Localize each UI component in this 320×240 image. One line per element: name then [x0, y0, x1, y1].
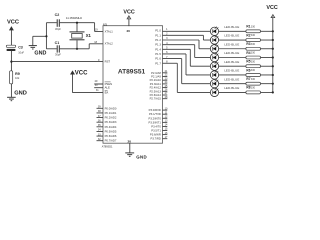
pin label RST: [105, 60, 111, 64]
resistor R3 330: [246, 42, 261, 50]
ground (U1 pin 20): [125, 153, 147, 160]
pin number 1: [166, 28, 168, 31]
resistor R6 330: [246, 68, 261, 76]
svg-text:15: 15: [165, 128, 168, 131]
wire P1.3 to LED D4: [163, 45, 211, 58]
svg-text:P0.2/AD2: P0.2/AD2: [105, 116, 117, 120]
resistor R8 330: [246, 86, 261, 94]
pin P0.6/AD6 stub (pin 33): [97, 133, 117, 138]
svg-text:VCC: VCC: [7, 19, 19, 25]
node VCC rail row 1: [272, 30, 274, 32]
svg-text:30: 30: [95, 84, 98, 87]
pin P0.3/AD3 stub (pin 36): [97, 119, 117, 124]
wire VCC to U1 pin 40: [128, 19, 130, 26]
capacitor C2 30pF: [55, 13, 62, 31]
LED D3 LED-BLUE: [210, 42, 239, 53]
pin number 8: [166, 60, 168, 63]
svg-text:40: 40: [126, 29, 130, 33]
svg-text:P1.6: P1.6: [155, 57, 161, 61]
pin label XTAL1: [105, 29, 114, 33]
svg-text:P2.2/A10: P2.2/A10: [150, 78, 162, 82]
svg-text:VCC: VCC: [266, 5, 277, 11]
wire P1.0 to LED D1: [163, 30, 211, 32]
pin P2.6/A14 stub (pin 27): [150, 92, 168, 97]
wire crystal top lead: [76, 23, 78, 32]
wire P1.6 to LED D7: [163, 59, 211, 84]
svg-text:LED-BLUE: LED-BLUE: [224, 51, 239, 55]
svg-text:C1: C1: [55, 41, 60, 45]
svg-text:GND: GND: [34, 51, 46, 57]
svg-text:LED-BLUE: LED-BLUE: [224, 69, 239, 73]
svg-text:330: 330: [251, 34, 256, 37]
svg-text:31: 31: [96, 89, 99, 92]
wire C2 to XTAL1: [60, 23, 103, 32]
node VCC rail row 6: [272, 74, 274, 76]
svg-text:P1.0: P1.0: [155, 29, 161, 33]
wire C1 left lead: [46, 48, 56, 50]
pin number 31 (EA): [96, 89, 99, 92]
pin number 6: [166, 51, 168, 54]
svg-text:P3.0/RXD: P3.0/RXD: [149, 108, 161, 112]
svg-text:14: 14: [165, 124, 168, 127]
pin label P1.1: [155, 33, 161, 37]
pin label P1.5: [155, 52, 161, 56]
pin P3.0/RXD stub (pin 10): [149, 107, 168, 112]
wire P1.7 to LED D8: [163, 63, 211, 92]
svg-text:P3.5/T1: P3.5/T1: [151, 129, 161, 133]
svg-text:P0.1/AD1: P0.1/AD1: [105, 111, 117, 115]
pin number 9 (RST): [98, 59, 100, 62]
svg-text:P3.4/T0: P3.4/T0: [151, 124, 161, 128]
svg-text:P2.0/A8: P2.0/A8: [151, 71, 161, 75]
svg-text:10: 10: [165, 107, 168, 110]
pin number 19 (XTAL1): [95, 29, 98, 32]
svg-text:13: 13: [165, 120, 168, 123]
power symbol VCC (U1 pin 40): [123, 9, 134, 19]
pin label P1.0: [155, 29, 161, 33]
wire U1 pin 20 to ground: [129, 143, 131, 153]
pin number 18 (XTAL2): [94, 41, 97, 44]
pin PSEN stub: [94, 80, 112, 86]
pin P2.2/A10 stub (pin 23): [150, 77, 168, 82]
wire RST net to U1 pin 9: [11, 61, 103, 63]
svg-text:21: 21: [165, 70, 168, 73]
node VCC rail row 4: [272, 56, 274, 58]
svg-text:330: 330: [251, 60, 256, 63]
resistor R9 10k: [10, 71, 20, 84]
LED D7 LED-BLUE: [210, 77, 239, 88]
pin P3.6/WR stub (pin 16): [150, 132, 168, 137]
resistor R4 330: [246, 51, 261, 59]
wire crystal bottom lead: [76, 40, 78, 49]
wire R7 to VCC rail: [261, 83, 273, 85]
svg-text:PSEN: PSEN: [105, 82, 113, 86]
pin label P1.2: [155, 38, 161, 42]
pin label P1.3: [155, 43, 161, 47]
svg-text:330: 330: [251, 43, 256, 46]
svg-text:27: 27: [165, 92, 168, 95]
pin number 3: [166, 37, 168, 40]
power symbol VCC (right rail): [266, 5, 277, 18]
wire P1.5 to LED D6: [163, 54, 211, 75]
pin label XTAL2: [105, 42, 114, 46]
pin number 40: [126, 29, 130, 33]
svg-text:XTAL2: XTAL2: [105, 42, 114, 46]
svg-text:10uF: 10uF: [18, 50, 24, 54]
wire VCC to C3: [10, 30, 12, 45]
op-amp U1 designator: [103, 22, 107, 26]
svg-text:11.0592MHz: 11.0592MHz: [66, 16, 83, 20]
svg-text:P1.2: P1.2: [155, 38, 161, 42]
pin label EA: [105, 91, 109, 95]
wire R3 to VCC rail: [261, 48, 273, 50]
svg-text:LED-BLUE: LED-BLUE: [224, 77, 239, 81]
wire R8 to VCC rail: [261, 91, 273, 93]
svg-text:330: 330: [251, 87, 256, 90]
svg-text:P2.1/A9: P2.1/A9: [151, 75, 161, 79]
svg-text:P2.7/A15: P2.7/A15: [150, 97, 162, 101]
svg-text:P3.7/RD: P3.7/RD: [150, 137, 160, 141]
wire ground tap: [33, 36, 47, 45]
svg-text:P0.0/AD0: P0.0/AD0: [105, 106, 117, 110]
svg-text:XTAL1: XTAL1: [105, 29, 114, 33]
svg-text:30pF: 30pF: [55, 27, 61, 31]
crystal X1 11.0592MHz: [66, 16, 92, 40]
resistor R7 330: [246, 77, 261, 85]
pin P2.3/A11 stub (pin 24): [150, 81, 168, 86]
resistor R5 330: [246, 60, 261, 68]
power symbol VCC (EA): [71, 71, 89, 77]
svg-text:28: 28: [165, 96, 168, 99]
pin P0.7/AD7 stub (pin 32): [97, 138, 117, 143]
node crystal top: [76, 22, 78, 24]
LED D1 LED-BLUE: [210, 25, 239, 36]
wire LED D1 to R1: [219, 30, 246, 32]
pin label P1.4: [155, 47, 161, 51]
svg-text:25: 25: [165, 85, 168, 88]
node VCC rail row 3: [272, 48, 274, 50]
ground (crystal caps): [29, 46, 47, 57]
svg-text:24: 24: [165, 81, 168, 84]
wire R1 to VCC rail: [261, 30, 273, 32]
svg-text:11: 11: [165, 111, 168, 114]
pin P0.5/AD5 stub (pin 34): [97, 129, 117, 134]
svg-text:ALE: ALE: [105, 86, 110, 90]
svg-text:R9: R9: [15, 72, 20, 76]
svg-text:29: 29: [95, 80, 98, 83]
svg-text:P0.6/AD6: P0.6/AD6: [105, 134, 117, 138]
svg-text:AT89S51: AT89S51: [102, 145, 113, 149]
svg-text:P0.3/AD3: P0.3/AD3: [105, 120, 117, 124]
pin P2.5/A13 stub (pin 26): [150, 89, 168, 94]
microcontroller U1 AT89S51 body: [102, 26, 163, 149]
svg-text:P1.5: P1.5: [155, 52, 161, 56]
svg-text:P1.4: P1.4: [155, 47, 161, 51]
wire C1 to XTAL2: [60, 44, 103, 49]
pin ALE stub: [94, 84, 110, 90]
svg-text:LED-BLUE: LED-BLUE: [224, 34, 239, 38]
svg-text:20: 20: [128, 139, 132, 143]
svg-text:LED-BLUE: LED-BLUE: [224, 86, 239, 90]
svg-text:P0.4/AD4: P0.4/AD4: [105, 125, 117, 129]
svg-text:P2.4/A12: P2.4/A12: [150, 86, 162, 90]
wire R6 to VCC rail: [261, 74, 273, 76]
wire LED D5 to R5: [219, 65, 246, 67]
pin P0.4/AD4 stub (pin 35): [97, 124, 117, 129]
node ground tap: [45, 35, 47, 37]
wire LED D3 to R3: [219, 48, 246, 50]
wire P1.2 to LED D3: [163, 40, 211, 49]
pin number 5: [166, 47, 168, 50]
pin number 20: [128, 139, 132, 143]
svg-text:P2.3/A11: P2.3/A11: [150, 82, 162, 86]
wire LED D7 to R7: [219, 83, 246, 85]
svg-text:330: 330: [251, 25, 256, 28]
pin P3.7/RD stub (pin 17): [150, 136, 168, 141]
node VCC rail row 2: [272, 39, 274, 41]
svg-text:22: 22: [165, 74, 168, 77]
wire LED D8 to R8: [219, 91, 246, 93]
wire VCC rail: [272, 18, 274, 93]
svg-text:330: 330: [251, 52, 256, 55]
svg-text:RST: RST: [105, 60, 111, 64]
LED D5 LED-BLUE: [210, 60, 239, 71]
wire P1.4 to LED D5: [163, 49, 211, 66]
wire C3 to RST node: [10, 51, 12, 71]
svg-text:P3.3/INT1: P3.3/INT1: [149, 120, 162, 124]
capacitor C1 30pF: [55, 41, 62, 57]
svg-text:LED-BLUE: LED-BLUE: [224, 42, 239, 46]
pin number 4: [166, 42, 168, 45]
LED D6 LED-BLUE: [210, 69, 239, 80]
pin P3.5/T1 stub (pin 15): [151, 128, 168, 133]
svg-text:LED-BLUE: LED-BLUE: [224, 25, 239, 29]
svg-text:P3.6/WR: P3.6/WR: [150, 133, 161, 137]
svg-text:P0.7/AD7: P0.7/AD7: [105, 139, 117, 143]
svg-text:12: 12: [165, 115, 168, 118]
svg-text:16: 16: [165, 132, 168, 135]
resistor R2 330: [246, 33, 261, 41]
wire R5 to VCC rail: [261, 65, 273, 67]
pin P3.2/INT0 stub (pin 12): [149, 115, 168, 120]
LED D8 LED-BLUE: [210, 86, 239, 97]
svg-text:VCC: VCC: [75, 71, 88, 77]
wire LED D6 to R6: [219, 74, 246, 76]
svg-text:17: 17: [165, 136, 168, 139]
node VCC rail row 7: [272, 83, 274, 85]
node VCC rail row 5: [272, 65, 274, 67]
pin P2.7/A15 stub (pin 28): [150, 96, 168, 101]
pin P3.4/T0 stub (pin 14): [151, 124, 168, 129]
svg-text:EA: EA: [105, 91, 109, 95]
capacitor C3 10uF (electrolytic): [6, 45, 24, 54]
ground (below R9): [7, 90, 27, 100]
svg-text:P3.1/TXD: P3.1/TXD: [149, 112, 161, 116]
LED D2 LED-BLUE: [210, 34, 239, 45]
svg-text:C2: C2: [55, 13, 60, 17]
wire LED D4 to R4: [219, 56, 246, 58]
resistor R1 330: [246, 25, 261, 33]
svg-text:330: 330: [251, 69, 256, 72]
svg-text:P1.1: P1.1: [155, 33, 161, 37]
pin P3.1/TXD stub (pin 11): [149, 111, 168, 116]
wire C2 left lead / rail: [46, 23, 56, 49]
wire R2 to VCC rail: [261, 39, 273, 41]
pin P3.3/INT1 stub (pin 13): [149, 120, 168, 125]
svg-text:10k: 10k: [15, 76, 20, 80]
node crystal bottom: [76, 48, 78, 50]
pin P0.2/AD2 stub (pin 37): [97, 115, 117, 120]
svg-text:P2.5/A13: P2.5/A13: [150, 89, 162, 93]
node RST junction: [10, 61, 12, 63]
svg-text:LED-BLUE: LED-BLUE: [224, 60, 239, 64]
pin P0.0/AD0 stub (pin 39): [97, 106, 117, 111]
svg-text:P1.3: P1.3: [155, 43, 161, 47]
pin label P1.6: [155, 57, 161, 61]
pin P0.1/AD1 stub (pin 38): [97, 110, 117, 115]
wire R4 to VCC rail: [261, 56, 273, 58]
wire P1.1 to LED D2: [163, 35, 211, 40]
svg-text:P0.5/AD5: P0.5/AD5: [105, 129, 117, 133]
svg-text:330: 330: [251, 78, 256, 81]
node VCC rail row 8: [272, 91, 274, 93]
pin number 7: [166, 56, 168, 59]
pin label P1.7: [155, 61, 161, 65]
svg-text:P2.6/A14: P2.6/A14: [150, 93, 162, 97]
svg-text:GND: GND: [136, 154, 147, 159]
svg-text:GND: GND: [14, 90, 27, 96]
pin P2.1/A9 stub (pin 22): [151, 74, 168, 79]
wire VCC to EA pin 31: [73, 74, 104, 92]
pin P2.4/A12 stub (pin 25): [150, 85, 168, 90]
svg-text:26: 26: [165, 89, 168, 92]
svg-text:AT89S51: AT89S51: [118, 69, 146, 76]
svg-text:P3.2/INT0: P3.2/INT0: [149, 116, 162, 120]
svg-text:C3: C3: [18, 46, 23, 50]
pin P2.0/A8 stub (pin 21): [151, 70, 168, 75]
wire R9 to ground: [10, 84, 12, 97]
svg-text:X1: X1: [86, 33, 92, 38]
svg-text:VCC: VCC: [123, 9, 134, 15]
svg-text:30pF: 30pF: [55, 53, 61, 57]
power symbol VCC (top-left): [7, 19, 19, 30]
svg-text:23: 23: [165, 77, 168, 80]
svg-text:P1.7: P1.7: [155, 61, 161, 65]
pin number 2: [166, 33, 168, 36]
svg-text:1: 1: [166, 28, 168, 31]
wire LED D2 to R2: [219, 39, 246, 41]
LED D4 LED-BLUE: [210, 51, 239, 62]
